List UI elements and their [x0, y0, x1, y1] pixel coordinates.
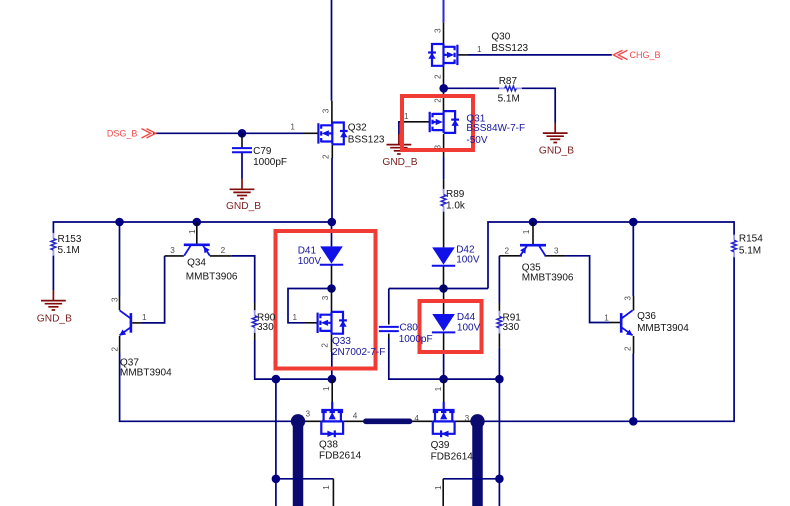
- wire3 left segment to lower fet gate: [276, 478, 334, 480]
- svg-text:1: 1: [188, 229, 197, 234]
- bus thick pack plate right: [472, 421, 483, 506]
- svg-text:R89: R89: [446, 189, 465, 200]
- ground GND_B at R153: [41, 290, 66, 310]
- svg-text:2: 2: [433, 98, 442, 103]
- transistor Q39 FDB2614: [433, 402, 455, 437]
- svg-text:Q30: Q30: [491, 32, 510, 43]
- svg-text:BSS123: BSS123: [491, 43, 528, 54]
- svg-text:CHG_B: CHG_B: [630, 50, 661, 60]
- svg-text:C80: C80: [400, 323, 419, 334]
- node rail Q36 junction: [629, 417, 638, 426]
- resistor R154 5.1M: [732, 235, 737, 258]
- wire rail right segment: [478, 420, 634, 422]
- svg-text:2: 2: [505, 246, 510, 255]
- svg-text:3: 3: [433, 28, 442, 33]
- transistor Q33 2N7002-7-F: [318, 312, 347, 334]
- transistor Q31 BSS84W-7-F: [430, 111, 459, 133]
- node wire3 left junction: [272, 475, 281, 484]
- svg-text:2: 2: [623, 346, 632, 351]
- svg-text:4: 4: [414, 414, 419, 423]
- svg-text:1: 1: [322, 485, 331, 490]
- pin D42 cathode: [443, 265, 445, 288]
- svg-text:GND_B: GND_B: [226, 201, 261, 212]
- transistor Q30 BSS123: [428, 44, 457, 66]
- svg-text:MMBT3906: MMBT3906: [186, 272, 238, 283]
- svg-text:Q34: Q34: [187, 257, 206, 268]
- svg-text:R87: R87: [499, 76, 518, 87]
- pin Q35 pin2 stub: [499, 255, 522, 257]
- svg-text:GND_B: GND_B: [37, 314, 72, 325]
- pin Q35 emitter: [532, 222, 534, 245]
- transistor Q34 MMBT3906: [184, 245, 210, 256]
- wire Q30 gate to CHG_B: [457, 54, 469, 56]
- pin Q33 gate: [305, 322, 317, 324]
- svg-text:3: 3: [170, 246, 175, 255]
- svg-text:1: 1: [477, 45, 482, 54]
- pin Q38 drain stub: [303, 420, 321, 422]
- svg-text:1: 1: [604, 313, 609, 322]
- svg-text:5.1M: 5.1M: [58, 245, 80, 256]
- svg-text:R153: R153: [58, 234, 82, 245]
- wire R153 to GND_B: [52, 255, 54, 291]
- svg-text:1: 1: [322, 386, 331, 391]
- bus1 left segment: [53, 222, 332, 234]
- wire D41 anode from bus: [331, 222, 333, 246]
- svg-text:Q33: Q33: [332, 336, 351, 347]
- svg-text:330: 330: [503, 322, 520, 333]
- svg-text:-50V: -50V: [466, 135, 487, 146]
- wire Q30 source to Q31 top: [443, 66, 445, 111]
- wire top feed to Q30 drain: [443, 0, 445, 23]
- wire C80 top from node line: [388, 289, 390, 321]
- svg-text:Q32: Q32: [348, 123, 367, 134]
- net label DSG_B: [107, 129, 156, 139]
- svg-text:MMBT3906: MMBT3906: [522, 273, 574, 284]
- pin Q32 source: [331, 145, 333, 159]
- svg-text:2: 2: [111, 347, 120, 352]
- ground GND_B at Q31 gate: [387, 134, 412, 154]
- svg-text:1: 1: [522, 229, 531, 234]
- svg-text:BSS123: BSS123: [348, 134, 385, 145]
- pin R89 top: [443, 179, 445, 190]
- bus1 right segment: [488, 222, 734, 289]
- transistor Q32 BSS123: [318, 122, 347, 144]
- svg-text:2: 2: [433, 74, 442, 79]
- transistor Q38 FDB2614: [321, 402, 343, 437]
- wire Q34 collector to R90: [210, 255, 232, 257]
- svg-text:1.0k: 1.0k: [446, 201, 466, 212]
- svg-text:2N7002-7-F: 2N7002-7-F: [332, 347, 385, 358]
- resistor R91 330: [497, 311, 502, 334]
- wire Q33 gate loop: [288, 289, 332, 323]
- highlight box D41/Q33: [276, 231, 376, 369]
- pin Q33 drain: [331, 289, 333, 313]
- net label CHG_B: [613, 50, 660, 60]
- wire C80 bottom to bus2 right: [388, 334, 390, 338]
- resistor R90 330: [252, 310, 257, 333]
- wire Q31 to R89: [443, 157, 445, 179]
- node Q36 collector junction: [629, 218, 638, 227]
- resistor R89 1.0k: [441, 189, 446, 212]
- pin D44 cathode to bus2: [443, 333, 445, 352]
- svg-text:GND_B: GND_B: [539, 145, 574, 156]
- svg-text:3: 3: [554, 246, 559, 255]
- svg-text:1000pF: 1000pF: [253, 157, 287, 168]
- ground GND_B at C79: [230, 179, 255, 199]
- svg-text:MMBT3904: MMBT3904: [120, 368, 172, 379]
- node bus2 R91 junction: [495, 375, 504, 384]
- pin Q38 gate from bus2: [331, 379, 333, 402]
- pin Q39 source stub: [411, 420, 433, 422]
- wire C79 bottom to GND_B: [241, 152, 243, 179]
- svg-text:1: 1: [404, 112, 409, 121]
- capacitor C79 1000pF: [232, 148, 252, 152]
- pin Q38 source stub: [343, 420, 364, 422]
- node Q32/D41 junction: [328, 218, 337, 227]
- wire3 right segment to lower fet gate: [443, 478, 499, 480]
- svg-text:3: 3: [111, 297, 120, 302]
- wire Q36 collector up to bus1: [632, 222, 634, 296]
- svg-text:MMBT3904: MMBT3904: [637, 323, 689, 334]
- diode D42 100V: [432, 247, 455, 265]
- svg-text:1: 1: [293, 313, 298, 322]
- svg-text:Q39: Q39: [431, 440, 450, 451]
- svg-text:1: 1: [142, 313, 147, 322]
- wire D41 cathode to node: [331, 265, 333, 289]
- svg-text:100V: 100V: [456, 255, 480, 266]
- svg-text:D44: D44: [457, 312, 476, 323]
- svg-text:3: 3: [433, 145, 442, 150]
- wire Q31 gate to GND_B: [404, 121, 430, 123]
- node bus2 gate-col junction: [272, 375, 281, 384]
- node Q37 collector junction: [115, 218, 124, 227]
- resistor R153 5.1M: [51, 233, 56, 256]
- svg-text:1000pF: 1000pF: [399, 334, 433, 345]
- svg-text:3: 3: [623, 296, 632, 301]
- svg-text:D41: D41: [298, 246, 317, 257]
- node D42/D44 junction: [439, 284, 448, 293]
- wire junction to R87: [444, 87, 500, 89]
- wire Q32 drain from top edge: [331, 0, 333, 101]
- svg-text:3: 3: [465, 414, 470, 423]
- svg-text:DSG_B: DSG_B: [107, 129, 138, 139]
- wire R90 bottom to bus2 left: [254, 331, 256, 340]
- transistor Q37 MMBT3904: [119, 310, 131, 335]
- wire R87 to GND_B: [522, 88, 556, 122]
- wire R91 bottom down: [498, 332, 500, 348]
- diode D44 100V: [432, 314, 455, 332]
- node bus2 Q33 junction: [328, 375, 337, 384]
- wire Q37 collector to bus1: [119, 222, 121, 296]
- svg-text:Q38: Q38: [319, 440, 338, 451]
- svg-text:100V: 100V: [298, 256, 322, 267]
- svg-text:2: 2: [321, 343, 330, 348]
- transistor Q35 MMBT3906: [520, 245, 546, 256]
- pin Q31 drain down: [443, 134, 445, 157]
- svg-text:1: 1: [434, 386, 443, 391]
- wire DSG_B to Q32 gate: [153, 132, 304, 134]
- pin 3 stub Q30 drain: [443, 23, 445, 44]
- wire gate col left down: [275, 379, 277, 506]
- svg-text:FDB2614: FDB2614: [431, 451, 474, 462]
- node bus2 D44 junction: [439, 375, 448, 384]
- resistor R87 5.1M: [499, 86, 522, 91]
- pin Q39 gate from bus2: [443, 379, 445, 402]
- transistor Q36 MMBT3904: [621, 310, 633, 335]
- wire R154 down to rail: [633, 256, 734, 421]
- node junction DSG/C79: [238, 129, 247, 138]
- svg-text:C79: C79: [253, 146, 272, 157]
- svg-text:FDB2614: FDB2614: [319, 450, 362, 461]
- node Q35 emitter junction: [529, 218, 538, 227]
- node Q34 emitter junction: [193, 218, 202, 227]
- pin Q32 drain: [331, 101, 333, 125]
- svg-text:330: 330: [257, 322, 274, 333]
- svg-text:3: 3: [321, 295, 330, 300]
- highlight box Q31: [402, 96, 473, 150]
- wire Q36 emitter down to rail: [633, 336, 635, 354]
- svg-text:BSS84W-7-F: BSS84W-7-F: [466, 123, 525, 134]
- wire Q37 emitter down to rail: [119, 336, 121, 353]
- bus thick pack plate left: [293, 421, 304, 506]
- highlight box D44: [420, 301, 482, 352]
- wire Q32 source to bus: [331, 158, 333, 222]
- ground GND_B at R87: [543, 123, 568, 143]
- pin Q33 source: [331, 334, 333, 352]
- node junction Q30.2/Q31.2/R87: [439, 84, 448, 93]
- node wire3 right junction: [495, 475, 504, 484]
- svg-text:3: 3: [306, 410, 311, 419]
- svg-text:GND_B: GND_B: [382, 157, 417, 168]
- capacitor C80 1000pF: [379, 327, 399, 331]
- node D41/Q33 gate junction: [327, 284, 336, 293]
- wire Q33 source to bus2: [331, 352, 333, 379]
- svg-text:3: 3: [321, 108, 330, 113]
- wire Q35 base col down: [498, 256, 500, 303]
- svg-text:100V: 100V: [457, 323, 481, 334]
- svg-text:1: 1: [434, 485, 443, 490]
- pin R89 bottom to D42 anode: [443, 210, 445, 247]
- pin D44 anode: [443, 289, 445, 315]
- svg-text:2: 2: [221, 246, 226, 255]
- bus thick source link Q38-Q39: [366, 418, 410, 424]
- svg-text:5.1M: 5.1M: [739, 245, 761, 256]
- wire Q34 emitter pin: [196, 222, 198, 245]
- svg-text:R154: R154: [739, 234, 763, 245]
- svg-text:2: 2: [322, 154, 331, 159]
- pin Q39 drain stub: [455, 420, 471, 422]
- wire Q34 base to Q37 base: [165, 255, 184, 257]
- wire node line y288: [389, 288, 488, 290]
- svg-text:4: 4: [353, 412, 358, 421]
- svg-text:Q36: Q36: [637, 311, 656, 322]
- svg-text:5.1M: 5.1M: [498, 93, 520, 104]
- diode D41 100V: [320, 246, 343, 264]
- svg-text:1: 1: [290, 123, 295, 132]
- wire Q35 pin3 to Q36 base: [545, 255, 566, 257]
- wire C79 top: [241, 133, 243, 148]
